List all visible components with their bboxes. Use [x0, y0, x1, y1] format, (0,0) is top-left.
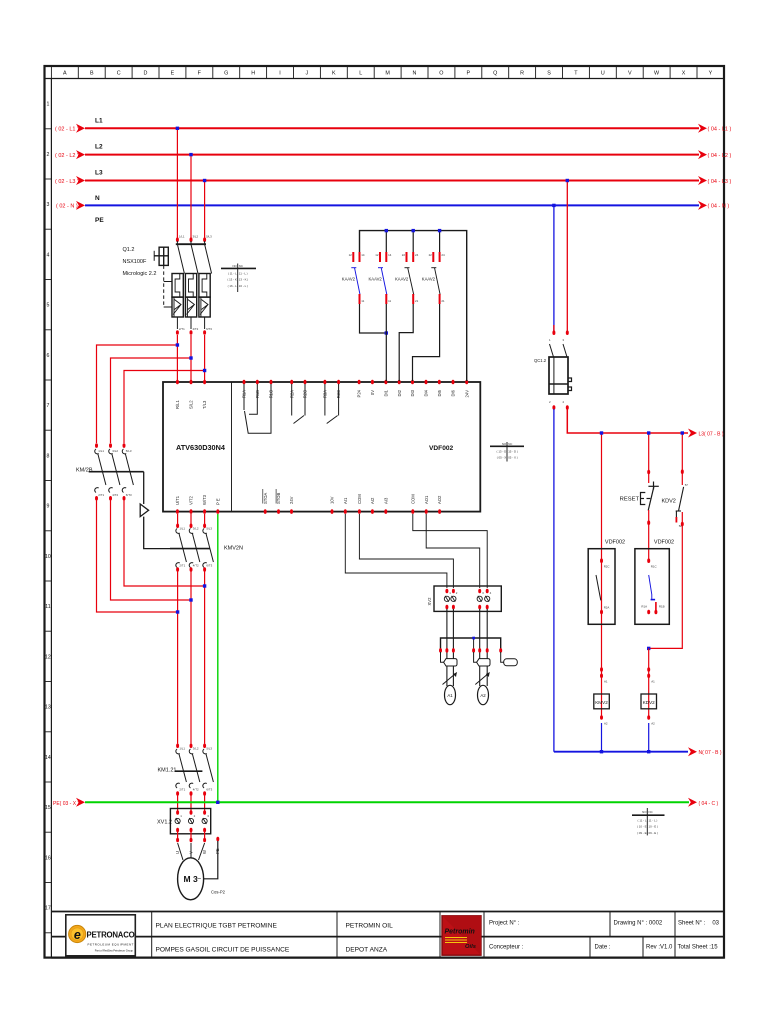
wire motor feeder 3	[204, 571, 206, 744]
svg-text:1/L1: 1/L1	[179, 747, 185, 751]
junction rail/col2	[647, 431, 650, 434]
meter A1	[443, 673, 457, 685]
svg-text:( 05 - X: ( 05 - X	[497, 456, 507, 460]
wire COM to XV2-2	[359, 514, 453, 588]
node rail arrow L3(07-B)	[688, 429, 697, 438]
svg-text:( 04 - L3 ): ( 04 - L3 )	[708, 179, 732, 185]
svg-text:e: e	[74, 928, 81, 942]
svg-text:STOB: STOB	[276, 492, 281, 504]
svg-text:3/L2: 3/L2	[193, 235, 199, 239]
svg-text:16 - L ): 16 - L )	[239, 284, 248, 288]
svg-text:P: P	[466, 71, 470, 77]
shunt resistor 3	[501, 652, 504, 662]
wire phase1 Q1.2 to VFD R/L1	[176, 335, 178, 381]
wire column KDV2-contact (x=682.3)	[681, 433, 683, 485]
svg-text:( 02 - L1 ): ( 02 - L1 )	[55, 127, 79, 133]
wire KDV2 coil to N	[648, 723, 650, 752]
wire L3 rail	[85, 180, 699, 182]
node L2 right arrow (04-L2)	[698, 150, 707, 159]
relay contact KAAV2-1	[342, 252, 365, 304]
svg-text:PLAN ELECTRIQUE TGBT PETROMINE: PLAN ELECTRIQUE TGBT PETROMINE	[156, 923, 278, 930]
relay box VDF002 (KDV2 pilot)	[635, 549, 669, 625]
svg-text:KAAV2: KAAV2	[369, 277, 383, 282]
svg-text:17: 17	[45, 906, 51, 912]
wire column KDV2 (x=648.7)	[648, 433, 650, 483]
svg-text:PE: PE	[95, 217, 104, 224]
svg-text:XV2: XV2	[427, 597, 432, 606]
svg-text:3/L2: 3/L2	[193, 527, 199, 531]
svg-text:1/L1: 1/L1	[179, 235, 185, 239]
svg-text:D: D	[144, 71, 148, 77]
svg-text:ATV630D30N4: ATV630D30N4	[176, 443, 226, 452]
svg-text:S/L2: S/L2	[189, 400, 194, 409]
svg-text:AI2: AI2	[370, 497, 375, 504]
Q1.2 auxiliary contact cross-reference table	[221, 264, 256, 293]
relay contact KAAV2-2	[369, 229, 392, 304]
svg-text:KM/2B: KM/2B	[76, 468, 93, 474]
breaker Q1.2 trip linkage dashed	[163, 265, 165, 307]
wire motor feeder 2	[190, 571, 192, 744]
svg-text:( 04 - L2 ): ( 04 - L2 )	[708, 153, 732, 159]
svg-text:5/L3: 5/L3	[206, 527, 212, 531]
svg-text:57: 57	[685, 483, 689, 487]
breaker Q1.2 top terminals	[176, 237, 179, 242]
svg-text:AI3: AI3	[383, 497, 388, 504]
svg-text:( 04 - C ): ( 04 - C )	[699, 801, 719, 807]
svg-text:Oils: Oils	[465, 944, 477, 950]
svg-text:Q1.2: Q1.2	[123, 247, 135, 253]
svg-text:V/T2: V/T2	[189, 495, 194, 505]
svg-text:21: 21	[415, 299, 419, 303]
svg-text:KAAV2: KAAV2	[342, 277, 356, 282]
svg-text:L3( 07 - B ): L3( 07 - B )	[699, 431, 724, 437]
svg-text:DI6: DI6	[451, 389, 456, 396]
svg-text:N: N	[413, 71, 417, 77]
VFD bottom control terminals	[264, 509, 267, 514]
svg-text:4/T2: 4/T2	[193, 327, 199, 331]
svg-text:~: ~	[197, 876, 201, 883]
svg-text:( 02 - L2 ): ( 02 - L2 )	[55, 153, 79, 159]
junction KAAV2-1/2	[385, 331, 388, 334]
meter A2	[475, 673, 489, 685]
svg-text:24V: 24V	[289, 496, 294, 504]
wire N rail	[85, 204, 699, 206]
junction L3/QC1.2	[566, 179, 569, 182]
svg-text:COM: COM	[357, 494, 362, 504]
svg-text:U: U	[175, 851, 180, 854]
svg-text:DI1: DI1	[384, 389, 389, 396]
junction N/KDV2	[647, 750, 650, 753]
svg-text:2/T1: 2/T1	[179, 564, 185, 568]
svg-text:Drawing N° : 0002: Drawing N° : 0002	[614, 921, 663, 927]
junction feeder3/KM2B	[203, 584, 206, 587]
svg-text:5/L3: 5/L3	[206, 747, 212, 751]
svg-text:12: 12	[375, 253, 379, 257]
svg-text:A1: A1	[447, 693, 453, 698]
junction rail/col1	[600, 431, 603, 434]
svg-text:KDV2: KDV2	[662, 499, 676, 505]
junction feeder2/KM2B	[189, 598, 192, 601]
svg-text:( 04 - N ): ( 04 - N )	[708, 204, 730, 210]
svg-text:R1B: R1B	[659, 605, 665, 609]
junction N/QC1.2	[552, 204, 555, 207]
VFD internal relay R3 contact	[325, 384, 339, 424]
node L1 right arrow (04-L1)	[698, 124, 707, 133]
wire L2 rail	[85, 154, 699, 156]
border frame	[45, 66, 725, 958]
op block VFD ATV630D30N4 / VDF002	[163, 382, 480, 512]
svg-text:Micrologic 2.2: Micrologic 2.2	[123, 271, 157, 277]
svg-text:22: 22	[402, 253, 406, 257]
svg-text:P E: P E	[215, 498, 220, 505]
svg-text:16: 16	[45, 855, 51, 861]
svg-text:15: 15	[45, 805, 51, 811]
wire KAAV2-2 common to DI1	[385, 304, 387, 381]
breaker Q1.2 blades	[177, 244, 211, 273]
svg-text:T/L3: T/L3	[202, 400, 207, 409]
svg-text:P24: P24	[357, 389, 362, 397]
svg-text:U: U	[601, 71, 605, 77]
wire KM/2B pole3 to node	[124, 500, 205, 586]
VFD top power terminals R/L1 S/L2 T/L3	[176, 380, 179, 385]
svg-text:NO: NO	[232, 264, 237, 268]
svg-text:STOA: STOA	[263, 492, 268, 504]
svg-text:6/T3: 6/T3	[126, 493, 132, 497]
svg-text:( 16 - L: ( 16 - L	[228, 284, 238, 288]
svg-text:4/T2: 4/T2	[193, 788, 199, 792]
motor M3	[178, 858, 204, 900]
svg-text:14: 14	[45, 755, 51, 761]
svg-text:DI4: DI4	[424, 389, 429, 396]
svg-text:( 11 - L: ( 11 - L	[638, 819, 647, 823]
wire branch phase3 to KM/2B	[124, 371, 205, 444]
svg-text:COM: COM	[410, 494, 415, 504]
shunt bus	[441, 638, 501, 650]
pushbutton RESET (NC)	[647, 470, 650, 475]
VFD top control terminals	[243, 380, 246, 385]
svg-text:2: 2	[46, 152, 49, 158]
junction rail/col3	[681, 431, 684, 434]
svg-text:DI2: DI2	[397, 389, 402, 396]
junction phase3 branch	[203, 369, 206, 372]
svg-text:9: 9	[46, 504, 49, 510]
svg-text:( 10 - E: ( 10 - E	[637, 825, 647, 829]
svg-text:U/T1: U/T1	[175, 495, 180, 505]
node L3 left arrow (02-L3)	[76, 176, 85, 185]
breaker Q1.2 bottom terminals	[177, 317, 204, 329]
svg-text:Concepteur :: Concepteur :	[489, 945, 524, 951]
node L2 left arrow (02-L2)	[76, 150, 85, 159]
svg-text:KMV2: KMV2	[595, 700, 608, 705]
contactor KM/2B tie bar	[89, 471, 144, 473]
svg-text:Rev :V1.0: Rev :V1.0	[646, 945, 673, 951]
svg-text:AO2: AO2	[437, 495, 442, 504]
wire KAAV2-4 common to DI3	[413, 304, 440, 381]
breaker Q1.2 thermal-magnetic elements	[172, 274, 210, 318]
svg-text:4/T2: 4/T2	[112, 493, 118, 497]
svg-text:O: O	[439, 71, 443, 77]
contact KDV2 (timed NO)	[681, 469, 684, 474]
svg-text:PETROLEUM EQUIPMENT: PETROLEUM EQUIPMENT	[88, 943, 134, 947]
junction N/KMV2	[600, 750, 603, 753]
svg-text:R2C: R2C	[604, 565, 610, 569]
wire AI1 to XV2-1	[345, 514, 447, 588]
svg-text:12: 12	[349, 253, 353, 257]
svg-text:22: 22	[429, 253, 433, 257]
svg-text:14: 14	[388, 253, 392, 257]
svg-text:11 - L ): 11 - L )	[239, 272, 248, 276]
svg-text:DI5: DI5	[437, 389, 442, 396]
link triangle to KMV2N bar	[144, 517, 170, 549]
svg-text:05 - X ): 05 - X )	[508, 456, 518, 460]
logo Petromin Oils	[442, 916, 481, 955]
svg-text:R2A: R2A	[604, 606, 610, 610]
node PE left arrow PE(03-X)	[76, 798, 85, 807]
svg-text:8: 8	[46, 453, 49, 459]
svg-text:J: J	[306, 71, 309, 77]
svg-text:6/T3: 6/T3	[206, 564, 212, 568]
svg-text:NO: NO	[642, 810, 647, 814]
svg-text:13 - K ): 13 - K )	[239, 278, 249, 282]
wires XV2 to meters	[447, 609, 487, 686]
switch-fuse QC1.2	[534, 330, 572, 409]
svg-text:Project N° :: Project N° :	[489, 921, 520, 927]
wire PE from VFD to PE bus	[217, 514, 219, 802]
svg-text:24: 24	[441, 253, 445, 257]
svg-text:M: M	[385, 71, 390, 77]
wire N return bus	[554, 751, 688, 753]
svg-text:PE( 03 - X ): PE( 03 - X )	[53, 801, 79, 807]
wire KAAV2-1 common to DI1	[360, 304, 387, 333]
svg-text:R1C: R1C	[651, 565, 657, 569]
svg-text:PETROMIN OIL: PETROMIN OIL	[346, 923, 394, 930]
wire branch phase1 to KM/2B	[97, 345, 178, 443]
svg-text:( 04 - L1 ): ( 04 - L1 )	[708, 127, 732, 133]
svg-text:1/L1: 1/L1	[98, 449, 104, 453]
wire N drop to QC1.2	[553, 205, 555, 331]
wire PE bus	[85, 801, 689, 803]
junction col3/col2	[647, 647, 650, 650]
wire RESET to VDF002-2	[648, 510, 650, 560]
wire branch phase2 to KM/2B	[111, 358, 192, 443]
svg-text:DI3: DI3	[410, 389, 415, 396]
svg-text:G: G	[224, 71, 228, 77]
svg-text:KAAV2: KAAV2	[395, 277, 409, 282]
svg-text:11: 11	[45, 604, 50, 610]
svg-text:0V: 0V	[370, 390, 375, 395]
svg-text:A1: A1	[651, 680, 655, 684]
svg-text:V: V	[628, 71, 632, 77]
VFD cross-reference table	[490, 442, 524, 462]
svg-text:12: 12	[45, 654, 51, 660]
junction shunt bus	[472, 637, 475, 640]
svg-text:W/T3: W/T3	[202, 494, 207, 505]
svg-text:KAAV2: KAAV2	[422, 277, 436, 282]
svg-text:KDV2: KDV2	[643, 700, 655, 705]
svg-text:4: 4	[46, 252, 49, 258]
svg-text:VDF002: VDF002	[654, 540, 674, 546]
svg-text:6/T3: 6/T3	[206, 327, 212, 331]
svg-text:L: L	[359, 71, 362, 77]
svg-text:11: 11	[361, 299, 364, 303]
svg-text:10 - E ): 10 - E )	[649, 825, 659, 829]
svg-text:H: H	[251, 71, 255, 77]
VFD internal relay R1 changeover	[244, 384, 271, 433]
svg-text:N: N	[95, 195, 100, 202]
coil KDV2	[648, 648, 650, 718]
svg-text:VDF002: VDF002	[429, 445, 454, 452]
svg-text:RESET: RESET	[620, 497, 640, 503]
svg-text:3/L2: 3/L2	[193, 747, 199, 751]
wire QC1.2 L3 pole to control rail	[567, 409, 688, 433]
svg-text:K: K	[332, 71, 336, 77]
svg-text:( 02 - L3 ): ( 02 - L3 )	[55, 179, 79, 185]
svg-text:R1A: R1A	[641, 605, 647, 609]
svg-text:1/L1: 1/L1	[179, 527, 185, 531]
svg-text:3: 3	[46, 202, 49, 208]
svg-text:( 09 - E: ( 09 - E	[637, 831, 647, 835]
svg-text:NC: NC	[649, 810, 653, 814]
shunt resistor 2	[474, 652, 477, 662]
svg-text:KM1.21: KM1.21	[158, 768, 177, 774]
svg-text:5/L3: 5/L3	[206, 235, 212, 239]
svg-text:L2: L2	[95, 144, 103, 151]
relay box VDF002 (KMV2 pilot)	[588, 549, 615, 625]
wire L2 drop to Q1.2	[190, 155, 192, 240]
svg-text:QC1.2: QC1.2	[534, 358, 547, 363]
wire phase2 Q1.2 to VFD S/L2	[190, 335, 192, 381]
svg-text:Q: Q	[493, 71, 497, 77]
svg-text:NO: NO	[502, 442, 507, 446]
svg-text:C: C	[117, 71, 121, 77]
svg-text:Total Sheet :15: Total Sheet :15	[678, 945, 719, 951]
svg-text:3/L2: 3/L2	[112, 449, 118, 453]
svg-text:DEPOT ANZA: DEPOT ANZA	[346, 947, 388, 954]
svg-text:W: W	[202, 850, 207, 854]
wire column KMV2 (x=601.5)	[601, 433, 603, 718]
svg-text:4/T2: 4/T2	[193, 564, 199, 568]
contactor KMV2N tie bar	[170, 548, 210, 550]
svg-text:14: 14	[361, 253, 365, 257]
junction PE/motor	[216, 801, 219, 804]
junction L3	[203, 179, 206, 182]
svg-text:24: 24	[415, 253, 419, 257]
svg-text:( 13 - D: ( 13 - D	[497, 450, 507, 454]
node N arrow N(07-B)	[688, 747, 697, 756]
svg-text:( 13 - K: ( 13 - K	[227, 278, 237, 282]
terminal block XV1.2	[170, 809, 210, 834]
svg-text:W: W	[654, 71, 660, 77]
svg-text:A2: A2	[651, 722, 655, 726]
PE drop to motor cos probe	[216, 837, 219, 842]
svg-text:15 - D ): 15 - D )	[508, 450, 518, 454]
wire 24V bus over KAAV2 contacts	[360, 231, 467, 381]
wire KM/2B pole2 to node	[111, 500, 192, 600]
svg-text:( 11 - L: ( 11 - L	[228, 272, 237, 276]
node PE right arrow (04-C)	[688, 798, 697, 807]
svg-text:VDF002: VDF002	[605, 540, 625, 546]
svg-text:NC: NC	[239, 264, 243, 268]
node N right arrow (04-N)	[698, 201, 707, 210]
KM/2B mechanical link to triangle	[143, 472, 145, 504]
breaker Q1.2 trip unit box	[154, 247, 168, 265]
svg-text:Part of RedSea Petroleum Group: Part of RedSea Petroleum Group	[95, 949, 134, 953]
svg-text:13: 13	[45, 705, 51, 711]
contactor KM1.21 tie bar	[175, 770, 203, 772]
wire KMV2 coil to N	[601, 723, 603, 752]
VFD internal relay R2 contact	[292, 384, 305, 424]
svg-text:M 3: M 3	[184, 874, 198, 884]
svg-text:X: X	[682, 71, 686, 77]
junction L1	[176, 127, 179, 130]
node N left arrow (02-N)	[76, 201, 85, 210]
wire COM2 to XV2-4	[413, 514, 487, 588]
svg-text:XV1.2: XV1.2	[157, 820, 172, 826]
PE cross-reference table	[632, 808, 665, 835]
wire motor feeder 1	[177, 571, 179, 744]
svg-text:2/T1: 2/T1	[179, 788, 185, 792]
svg-text:I: I	[279, 71, 281, 77]
relay contact KAAV2-4	[422, 229, 445, 304]
wire KAAV2-3 common to DI2	[399, 304, 413, 381]
wire AO1 to XV2-3	[426, 514, 480, 588]
junction phase2 branch	[189, 356, 192, 359]
node L3 right arrow (04-L3)	[698, 176, 707, 185]
coil KMV2	[600, 667, 603, 672]
interlock triangle	[140, 504, 148, 517]
svg-text:R/L1: R/L1	[175, 399, 180, 409]
wire L3 drop to Q1.2	[204, 181, 206, 240]
svg-text:E: E	[171, 71, 175, 77]
wire QC1.2 N pole down (blue)	[553, 409, 555, 752]
wires KM1.21 to XV1.2	[177, 795, 179, 812]
wire KDV2 contact to junction	[649, 512, 683, 648]
svg-text:24V: 24V	[464, 390, 469, 398]
wire L1 rail	[85, 127, 699, 129]
wire phase3 Q1.2 to VFD T/L3	[204, 335, 206, 381]
svg-text:AI1: AI1	[343, 497, 348, 504]
svg-text:A1: A1	[604, 680, 608, 684]
svg-text:AO1: AO1	[424, 495, 429, 504]
svg-text:L1: L1	[95, 118, 103, 125]
svg-text:KMV2N: KMV2N	[224, 546, 243, 552]
svg-text:2/T1: 2/T1	[179, 327, 185, 331]
svg-text:Sheet N° :: Sheet N° :	[678, 921, 706, 927]
relay contact KAAV2-3	[395, 229, 419, 304]
junction phase1 branch	[176, 343, 179, 346]
svg-text:PETRONACO: PETRONACO	[87, 931, 135, 940]
junction L2	[189, 153, 192, 156]
svg-text:10: 10	[45, 554, 51, 560]
wire L3 drop to QC1.2	[566, 181, 568, 332]
svg-text:Cos-P2: Cos-P2	[211, 890, 226, 895]
svg-text:NC: NC	[508, 442, 512, 446]
svg-text:6: 6	[46, 353, 49, 359]
svg-text:B: B	[90, 71, 94, 77]
svg-text:10V: 10V	[330, 496, 335, 504]
svg-text:1: 1	[46, 102, 49, 108]
svg-text:S: S	[547, 71, 551, 77]
svg-text:5/L3: 5/L3	[126, 449, 132, 453]
node L1 left arrow (02-L1)	[76, 124, 85, 133]
svg-text:Date :: Date :	[595, 945, 611, 951]
svg-text:Y: Y	[709, 71, 713, 77]
svg-text:11: 11	[388, 299, 391, 303]
svg-text:R: R	[520, 71, 524, 77]
logo PETRONACO	[66, 915, 136, 956]
wires into motor	[178, 843, 205, 860]
svg-text:11 - L ): 11 - L )	[649, 819, 658, 823]
